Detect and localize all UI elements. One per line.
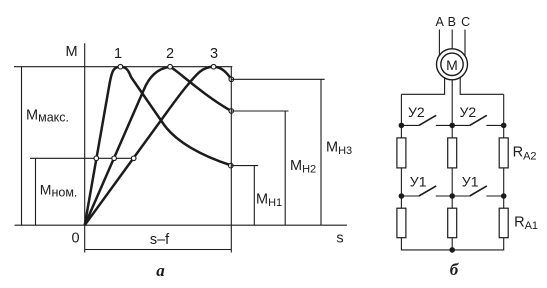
contact U1 right: [452, 186, 504, 196]
node peak 1: [118, 64, 123, 69]
wire phase B lead: [451, 30, 453, 65]
node peak 3: [211, 64, 216, 69]
y-axis M: [84, 43, 86, 225]
s-f dimension line: [85, 249, 232, 251]
wire middle bus lower: [451, 238, 453, 250]
node peak 2: [168, 64, 173, 69]
MH3 bracket vertical: [320, 79, 322, 225]
contact U2 left: [401, 115, 452, 125]
node junction row1 left: [399, 123, 405, 129]
svg-text:У1: У1: [410, 174, 427, 190]
node Mnom 1: [94, 156, 99, 161]
svg-text:МН3: МН3: [326, 140, 352, 158]
wire middle bus upper: [451, 125, 453, 137]
node Mnom 2: [112, 156, 117, 161]
svg-text:M: M: [65, 44, 77, 60]
wire right bus lower: [452, 238, 504, 250]
node junction row2 right: [501, 193, 507, 199]
MH3 level line: [231, 78, 324, 80]
contact U1 left: [401, 186, 452, 196]
motor U1 inner circle: [441, 53, 463, 75]
resistor row2 left: [397, 208, 406, 238]
right boundary vertical s=1: [230, 67, 232, 253]
svg-text:У1: У1: [462, 174, 479, 190]
svg-text:C: C: [461, 15, 470, 29]
svg-text:Ммакс.: Ммакс.: [26, 108, 69, 125]
svg-text:3: 3: [210, 46, 218, 62]
torque curve 2: [85, 67, 232, 226]
svg-text:б: б: [450, 260, 460, 279]
svg-text:МН1: МН1: [256, 191, 282, 209]
resistor RA2: [499, 138, 508, 168]
wire rotor lead right: [460, 64, 504, 94]
svg-text:s–f: s–f: [150, 232, 170, 248]
svg-text:1: 1: [114, 46, 122, 62]
resistor row2 middle: [448, 208, 457, 238]
svg-text:М: М: [446, 57, 458, 73]
Mmax bracket vertical: [21, 67, 23, 226]
wire middle bus middle: [451, 168, 453, 208]
torque curve 1: [85, 67, 232, 226]
svg-text:0: 0: [71, 231, 79, 247]
svg-text:а: а: [156, 261, 165, 280]
resistor row1 middle: [448, 138, 457, 168]
node junction row1 right: [501, 123, 507, 129]
node junction row2 middle: [449, 193, 455, 199]
svg-text:B: B: [448, 15, 456, 29]
resistor RA1: [499, 208, 508, 238]
svg-text:У2: У2: [408, 104, 425, 120]
resistor row1 left: [397, 138, 406, 168]
node junction row2 left: [399, 193, 405, 199]
MH2 bracket vertical: [284, 111, 286, 225]
node MH1: [229, 163, 234, 168]
svg-text:МН2: МН2: [290, 158, 316, 176]
wire rotor lead middle: [451, 64, 453, 125]
wire left bus lower: [401, 238, 452, 250]
MH2 level line: [231, 110, 288, 112]
wire rotor lead left: [401, 64, 444, 94]
torque curve 3: [85, 67, 232, 226]
wire right bus middle: [503, 168, 505, 208]
svg-text:s: s: [336, 231, 343, 247]
svg-text:Мном.: Мном.: [40, 181, 78, 199]
MH1 bracket vertical: [253, 166, 255, 226]
node MH3: [229, 77, 234, 82]
node Mnom 3: [131, 156, 136, 161]
x-axis s: [15, 224, 347, 226]
wire left bus middle: [400, 168, 402, 208]
svg-text:RА1: RА1: [514, 214, 538, 232]
wire left bus upper: [400, 94, 402, 138]
Mnom level line: [30, 157, 134, 159]
svg-text:У2: У2: [460, 104, 477, 120]
wire phase A lead: [438, 30, 440, 65]
contact U2 right: [452, 115, 504, 125]
svg-text:A: A: [436, 15, 445, 29]
svg-text:2: 2: [166, 46, 174, 62]
svg-text:RА2: RА2: [513, 145, 537, 163]
node junction bottom: [449, 247, 455, 253]
Mmax level line: [14, 66, 232, 68]
Mnom bracket vertical: [35, 158, 37, 225]
motor U1 outer circle: [437, 49, 468, 80]
s-f dimension left tick: [84, 225, 86, 252]
node MH2: [229, 109, 234, 114]
wire right bus upper: [503, 94, 505, 138]
MH1 level line: [231, 165, 258, 167]
wire phase C lead: [464, 30, 466, 65]
node junction row1 middle: [449, 123, 455, 129]
